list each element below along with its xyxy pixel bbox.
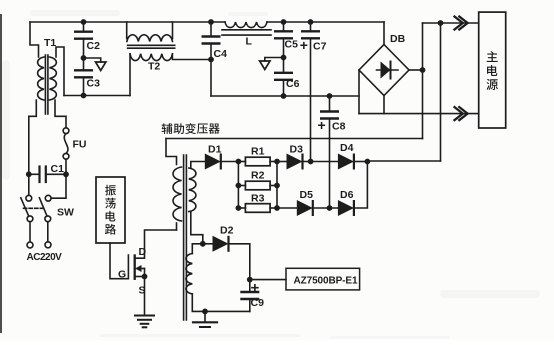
capacitor C2 leads — [83, 22, 85, 32]
switch SW gang dashed link — [24, 207, 45, 209]
wire: aux transformer feed wire — [166, 138, 423, 140]
wire: R1 row — [238, 161, 245, 163]
wire: oscillator to gate — [110, 243, 128, 279]
resistor R1 — [245, 157, 270, 166]
aux transformer core — [183, 155, 185, 320]
wire: top rail right segment — [267, 21, 384, 23]
svg-text:T1: T1 — [44, 37, 56, 49]
chevron arrows top — [455, 17, 468, 121]
svg-text:D3: D3 — [290, 144, 304, 156]
diode D4 — [338, 154, 354, 170]
svg-text:+: + — [251, 280, 260, 297]
wire: R3 row — [238, 207, 245, 209]
resistor R2 — [245, 181, 270, 190]
wire: switch to AC terminals — [29, 222, 31, 242]
svg-text:SW: SW — [57, 207, 74, 219]
svg-text:+: + — [318, 117, 326, 133]
choke T2 bottom-left lead — [129, 54, 131, 96]
svg-text:FU: FU — [73, 139, 87, 151]
svg-text:S: S — [139, 285, 146, 297]
aux transformer secondary2 bottom lead — [192, 294, 205, 311]
wire: DB right vertex to vertical — [409, 69, 423, 71]
capacitor C9 plates — [240, 291, 259, 293]
chevron arrows bottom — [455, 107, 463, 120]
ground under C9 junction — [204, 311, 206, 321]
transformer T1 left winding — [38, 57, 44, 100]
wire: R left column vertical — [237, 162, 239, 209]
choke T2 right step — [172, 22, 174, 39]
svg-text:DB: DB — [390, 33, 406, 45]
svg-text:G: G — [118, 269, 126, 281]
capacitor C4 plates — [202, 35, 221, 37]
svg-text:D5: D5 — [300, 189, 314, 201]
scan edge line — [0, 14, 2, 333]
diode D3 — [287, 154, 303, 170]
capacitor C8 leads — [329, 96, 331, 112]
wire: C3 bottom row to T2 — [64, 95, 130, 97]
ground triangle at C2/C3 — [96, 62, 106, 71]
capacitor C2 plates — [74, 31, 93, 33]
wire: DB left vertex down to lower output rail — [358, 70, 360, 114]
capacitor C1 leads — [29, 173, 40, 175]
block: AZ7500BP-E1 box — [286, 268, 360, 290]
capacitor C3 plates — [74, 69, 93, 71]
svg-text:C1: C1 — [51, 163, 65, 175]
svg-text:L: L — [246, 36, 253, 48]
wire: lower output rail to main box — [359, 113, 479, 115]
capacitor C5 plates — [274, 30, 293, 32]
svg-text:C6: C6 — [286, 78, 300, 90]
capacitor C6 plates — [274, 72, 293, 74]
AC220V terminal circles — [27, 242, 33, 248]
switch SW right pole — [45, 195, 51, 201]
ground triangle at C5/C6 — [260, 61, 270, 70]
ground stub at C5/C6 — [265, 58, 284, 62]
block: oscillator box 振荡电路 — [96, 177, 125, 243]
capacitor C7 plates — [301, 30, 320, 32]
label: oscillator box text 振荡电路 — [105, 185, 116, 235]
transistor Q drain stub and wire — [135, 230, 177, 258]
capacitor C7 leads — [310, 22, 312, 31]
svg-text:C2: C2 — [87, 40, 101, 52]
wire: mid rail (C4-C6-C8 row) — [211, 95, 359, 97]
wire: D4 cathode to junction — [354, 161, 368, 163]
resistor R3 — [245, 204, 270, 213]
svg-text:D: D — [139, 246, 147, 258]
diode D6 — [338, 200, 354, 216]
svg-text:R1: R1 — [251, 146, 265, 158]
choke T2 core bars — [128, 44, 175, 46]
aux transformer secondary1 winding — [189, 168, 196, 212]
wire: D1 cathode to R column — [221, 161, 239, 163]
capacitor C8 plates — [320, 110, 339, 112]
wire: rail drop to bridge top — [383, 22, 385, 45]
transformer T1 right bottom lead — [55, 100, 66, 128]
wire: DB bottom vertex down — [383, 96, 385, 114]
diode D2 — [213, 236, 229, 252]
wire: R2 row — [238, 185, 245, 187]
wire: vertical x=440.5 (diode output up to top rail) — [440, 23, 442, 161]
choke T2 bottom-right lead — [172, 54, 211, 60]
wire: D6 cathode to up-junction — [354, 162, 368, 209]
label: main power box text 主电源 — [486, 51, 497, 90]
transformer T1 core — [44, 55, 46, 114]
capacitor C4 leads — [210, 22, 212, 37]
wire: C1 right down to switch right pole — [51, 174, 66, 198]
wire: source to ground — [144, 277, 146, 316]
transistor Q source stub — [135, 276, 145, 278]
diode D5 — [297, 200, 313, 216]
transistor Q channel bar — [134, 256, 136, 279]
svg-text:AZ7500BP-E1: AZ7500BP-E1 — [294, 275, 358, 286]
svg-text:+: + — [300, 37, 308, 53]
transistor Q arrow stub — [140, 268, 145, 270]
aux transformer secondary2 top lead — [192, 244, 203, 254]
svg-text:C5: C5 — [285, 39, 299, 51]
ground stub at C2/C3 — [84, 58, 101, 62]
wire: top rail left segment — [30, 21, 225, 23]
capacitor C6 leads — [283, 58, 285, 73]
fuse FU circles and wave — [63, 128, 69, 134]
inductor L core bars — [222, 29, 271, 31]
svg-text:R3: R3 — [251, 193, 265, 205]
transformer T1 left lead — [30, 22, 39, 57]
wire: R right column vertical — [276, 162, 278, 209]
capacitor C5 leads — [283, 22, 285, 31]
switch SW left pole — [26, 195, 32, 201]
transformer T1 right top lead — [56, 47, 64, 96]
capacitor C9 leads — [249, 280, 251, 292]
ground under source — [135, 315, 154, 317]
svg-text:C7: C7 — [313, 41, 327, 53]
label: aux transformer title 辅助变压器 — [162, 123, 220, 134]
wire: D2 anode row — [203, 243, 213, 245]
bridge DB inner diode — [377, 69, 399, 71]
bridge rectifier DB diamond — [359, 45, 409, 96]
svg-text:AC220V: AC220V — [27, 252, 63, 263]
svg-text:C8: C8 — [332, 121, 346, 133]
wire: D3 to D4 — [311, 161, 338, 163]
inductor L scallops — [225, 22, 267, 28]
choke T2 left step — [126, 22, 128, 39]
wire: C4 bottom down to mid rail — [210, 60, 212, 97]
aux transformer secondary2 winding — [186, 254, 192, 294]
transformer T1 left bottom lead — [29, 100, 37, 174]
aux transformer primary top lead — [166, 139, 177, 165]
wire: FU to C1 right — [65, 159, 67, 174]
aux transformer secondary1 top lead — [191, 162, 205, 169]
diode D1 — [205, 154, 221, 170]
wire: top output rail to main box — [423, 22, 479, 24]
choke T2 bottom winding — [130, 54, 172, 61]
svg-text:T2: T2 — [148, 61, 160, 73]
wire: D2 cathode to C9 top — [229, 244, 250, 280]
aux transformer primary winding — [173, 167, 181, 221]
aux transformer secondary1 bottom lead — [191, 212, 203, 244]
capacitor C3 leads — [83, 58, 85, 70]
block: main power box 主电源 — [479, 12, 506, 128]
svg-text:D2: D2 — [220, 225, 234, 237]
wire: D5 row — [277, 207, 297, 209]
svg-text:C4: C4 — [214, 48, 228, 60]
choke T2 top winding — [127, 35, 173, 42]
svg-text:C3: C3 — [87, 78, 101, 90]
svg-text:D6: D6 — [340, 189, 354, 201]
transformer T1 right winding — [49, 57, 56, 100]
svg-text:C9: C9 — [251, 297, 265, 309]
svg-text:R2: R2 — [251, 170, 265, 182]
aux transformer primary bottom lead — [176, 223, 178, 230]
wire: C9 bottom to ground junction — [205, 310, 250, 312]
wire: right vertical x=422.5 (DB+ to aux feed) — [422, 23, 424, 139]
wire: D4/D6 output row to vertical — [367, 160, 440, 162]
wire: C9 junction to AZ box — [250, 279, 286, 281]
capacitor C1 plates — [38, 167, 40, 183]
svg-text:D1: D1 — [208, 144, 222, 156]
wire: C1 left down to switch — [28, 174, 30, 195]
wire: D3 row — [277, 161, 287, 163]
svg-text:D4: D4 — [340, 142, 354, 154]
